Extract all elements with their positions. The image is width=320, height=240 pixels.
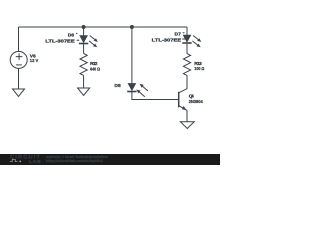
svg-text:LAB: LAB <box>29 159 42 164</box>
svg-text:D6: D6 <box>68 32 75 38</box>
LED D6 <box>79 36 98 48</box>
wire R13 to collector <box>186 76 188 89</box>
wire D6 to R12 <box>83 44 85 54</box>
node junction dot D8 branch <box>130 25 134 29</box>
node junction dot D6 branch <box>82 25 86 29</box>
wire V6 top to rail <box>18 27 20 52</box>
CircuitLab logo <box>10 155 42 164</box>
ground (Q4 emitter) <box>180 122 194 129</box>
svg-text:R12: R12 <box>90 61 98 67</box>
wire R12 to ground <box>83 76 85 89</box>
wire D7 to R13 <box>186 44 188 54</box>
label tick marks D7 <box>182 33 185 39</box>
wire D6 branch from rail <box>83 27 85 36</box>
LED D7 <box>182 35 201 47</box>
svg-text:D8: D8 <box>114 83 121 89</box>
svg-text:640 Ω: 640 Ω <box>90 66 100 72</box>
wire D8 to Q4 base corner <box>132 92 179 100</box>
svg-text:R13: R13 <box>194 61 202 67</box>
resistor R13 <box>183 54 190 76</box>
svg-text:12 V: 12 V <box>30 58 39 64</box>
svg-text:http;//circuitlab.com/c/6y95z2: http;//circuitlab.com/c/6y95z2 <box>46 159 103 163</box>
svg-text:LTL-307EE: LTL-307EE <box>45 38 75 44</box>
svg-text:D7: D7 <box>175 32 182 38</box>
svg-text:2N3904: 2N3904 <box>189 99 203 105</box>
wire emitter to ground <box>186 110 188 121</box>
svg-text:LTL-307EE: LTL-307EE <box>152 37 182 43</box>
watermark bar <box>0 154 220 165</box>
LED D8 photodiode <box>127 84 148 97</box>
wire D8 branch from rail <box>131 27 133 84</box>
transistor Q4 2N3904 <box>179 89 187 111</box>
label tick marks D6 <box>76 33 79 40</box>
ground (V6) <box>13 89 25 96</box>
svg-text:Q4: Q4 <box>189 93 194 99</box>
wire V6 bottom to ground <box>18 68 20 89</box>
svg-text:100 Ω: 100 Ω <box>194 66 204 72</box>
watermark text <box>46 155 109 163</box>
ground (R12) <box>78 88 90 95</box>
voltage source V6 <box>10 51 27 68</box>
wire D7 branch drop <box>186 27 188 35</box>
wire top rail <box>19 26 188 28</box>
resistor R12 <box>80 54 87 76</box>
